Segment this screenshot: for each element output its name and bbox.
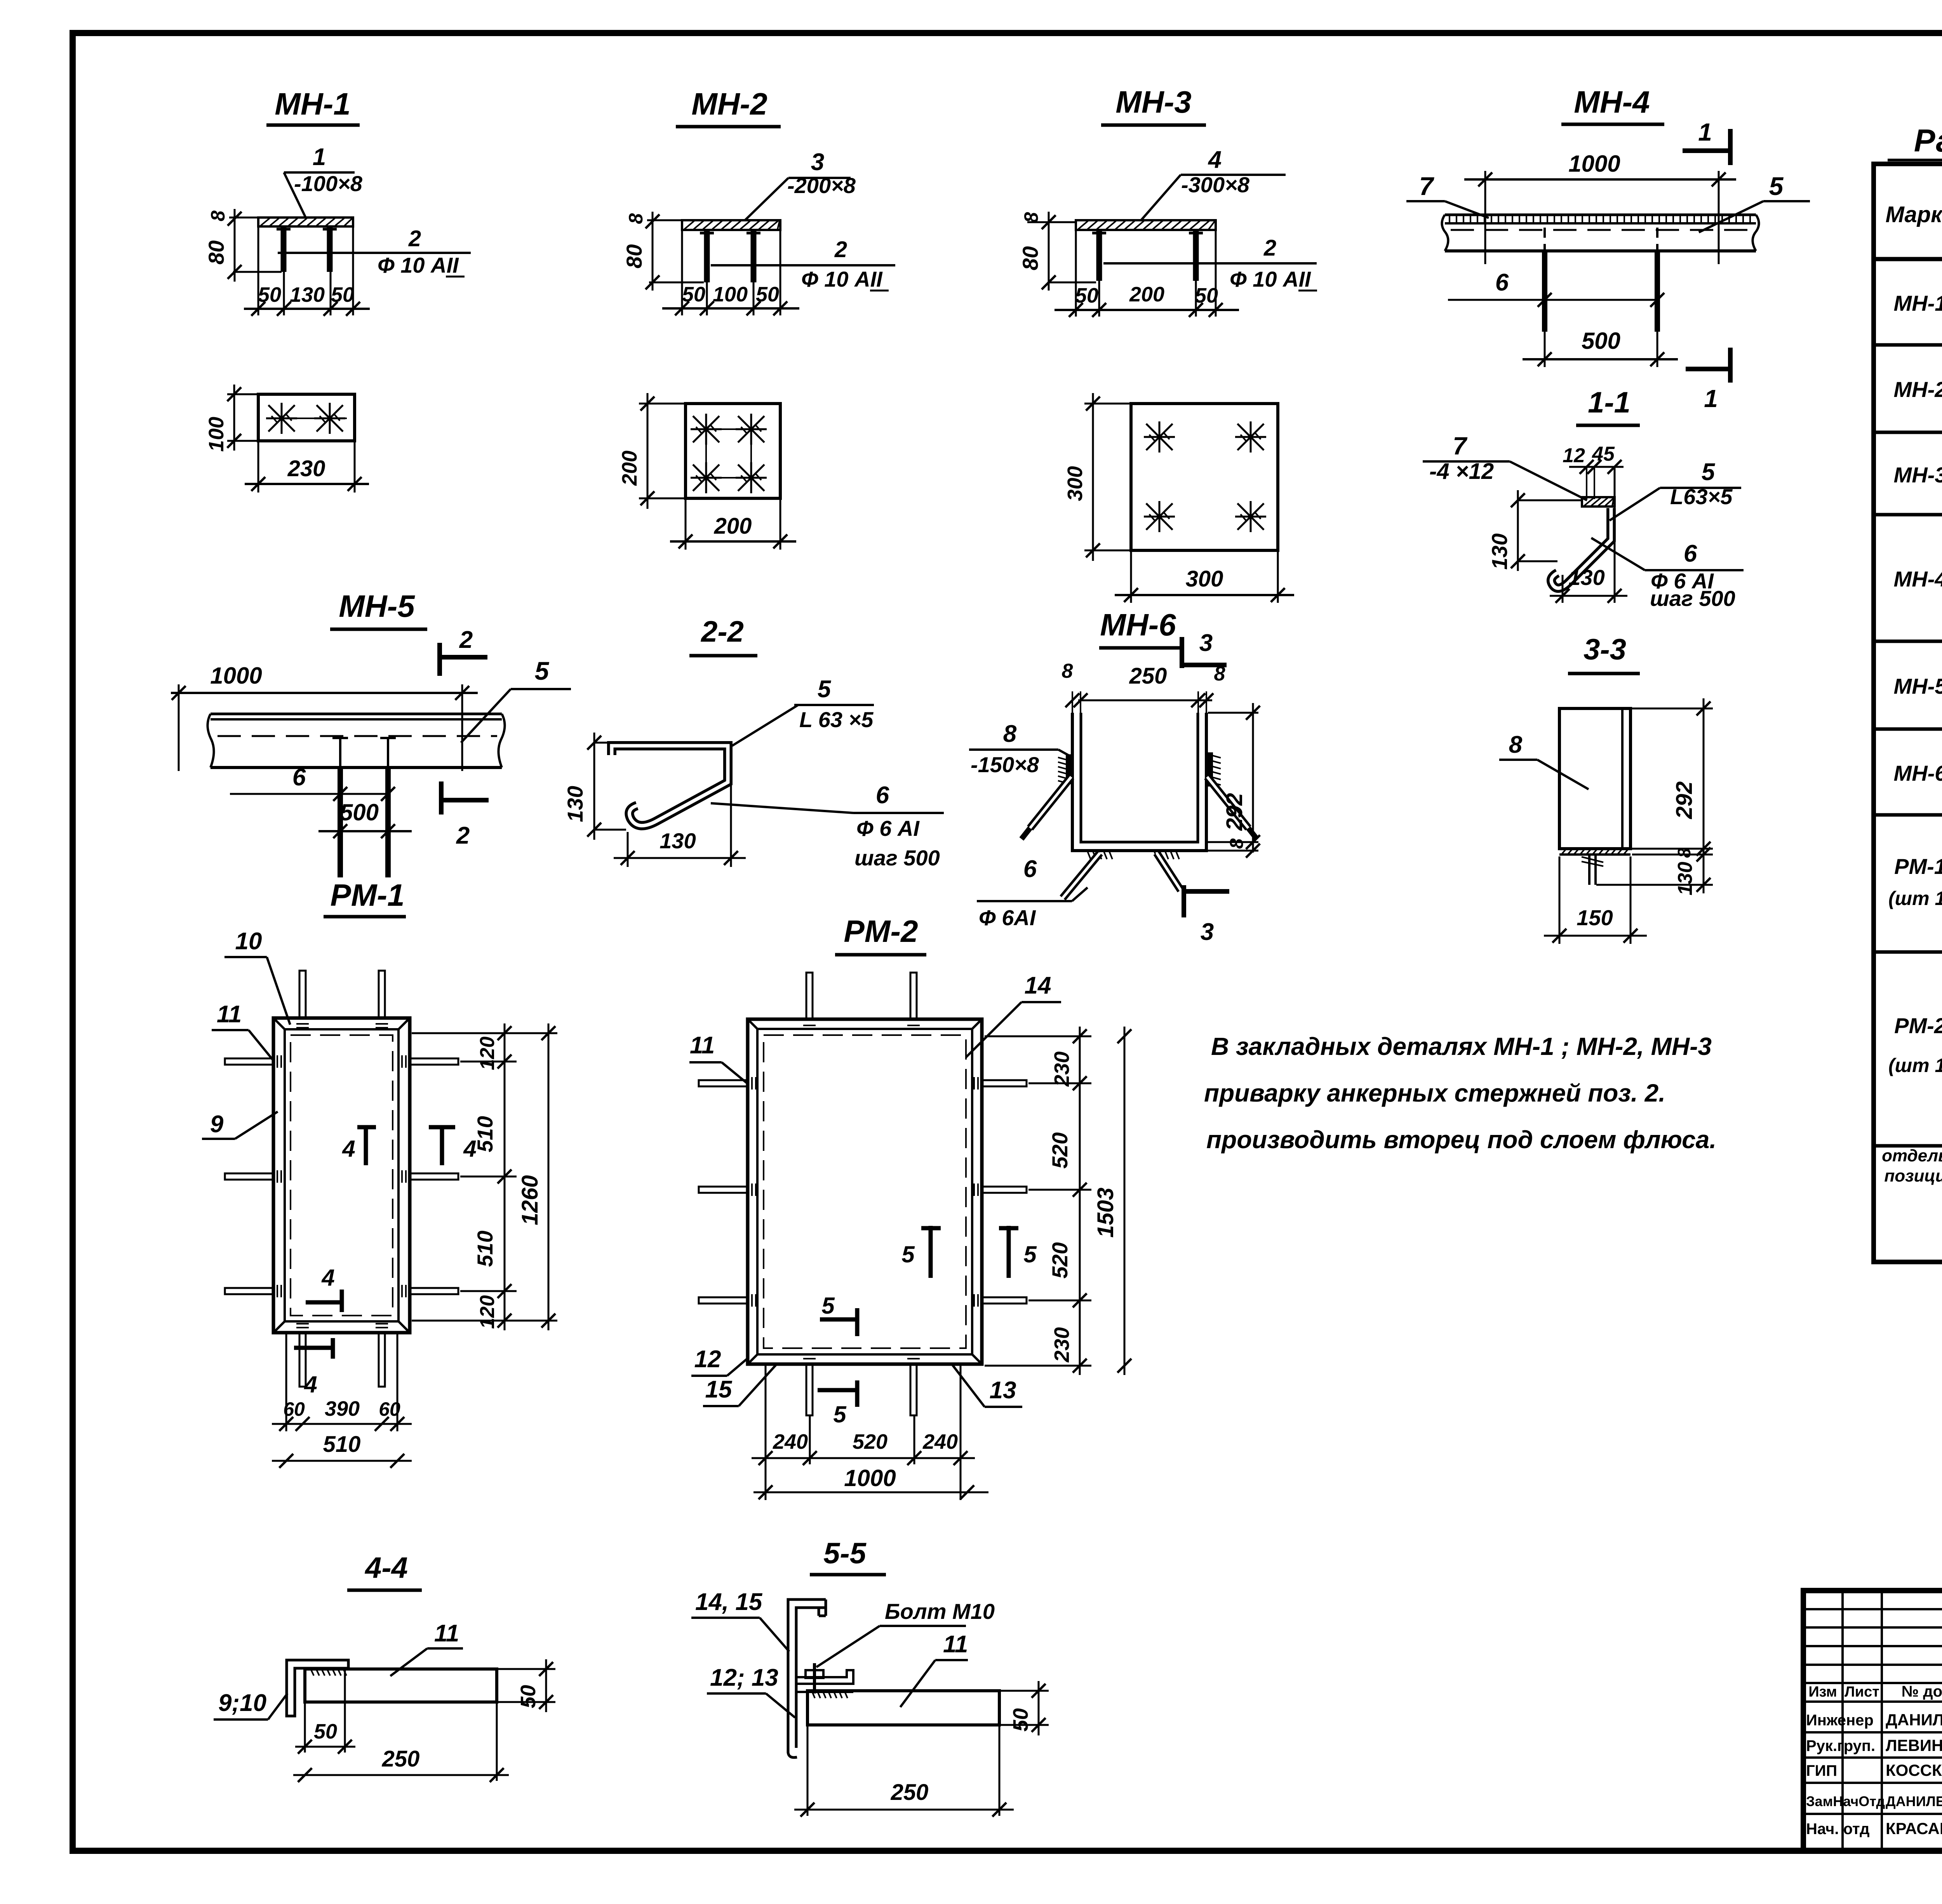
PM-1 anchor pins [225,971,458,1387]
svg-text:11: 11 [434,1620,459,1647]
section 2-2 title [689,615,757,656]
svg-text:Болт М10: Болт М10 [885,1599,995,1624]
svg-text:250: 250 [382,1746,420,1772]
svg-text:292: 292 [1222,793,1247,831]
general note text [1204,1032,1716,1154]
PM-1 bottom dims 60 390 60 [272,1334,412,1431]
svg-text:250: 250 [1129,663,1167,689]
MH-2 leader pos.2 F10AII [711,237,895,291]
svg-text:Изм: Изм [1808,1684,1837,1700]
svg-text:шаг 500: шаг 500 [854,846,940,870]
svg-text:100: 100 [205,417,228,452]
2-2 dim 130 left [563,733,626,840]
svg-text:Ф 6 АI: Ф 6 АI [856,816,920,841]
table header lines [1874,206,1942,259]
PM-1 pin weld ticks [277,1024,406,1328]
svg-text:8: 8 [1020,212,1042,223]
svg-text:45: 45 [1592,443,1615,465]
3-3 dim 130 right [1596,848,1713,895]
svg-text:ЗамНачОтд: ЗамНачОтд [1806,1793,1885,1809]
svg-text:6: 6 [292,764,306,791]
5-5 plate pos.11 [807,1691,999,1725]
svg-text:50: 50 [314,1720,337,1743]
svg-text:80: 80 [204,240,228,265]
2-2 leader pos.5 L63x5 [732,676,874,746]
MH-6 channel pos.8 [1072,713,1206,851]
MH-2 anchor bars pos.2 [700,230,760,282]
PM-2 dim 1000 [753,1465,988,1499]
svg-text:3-3: 3-3 [1584,633,1626,666]
svg-text:1000: 1000 [844,1465,896,1491]
PM-2 leader pos.11 [689,1032,748,1084]
svg-text:200: 200 [618,451,641,486]
svg-text:МН-5: МН-5 [339,589,415,623]
svg-text:500: 500 [340,799,379,825]
MH-6 section mark 3 bottom [1184,885,1229,945]
svg-text:14, 15: 14, 15 [695,1589,763,1615]
detail PM-2 title [835,914,926,955]
MH-3 leader pos.2 F10AII [1103,235,1317,291]
1-1 vertical edge line [1614,467,1616,603]
MH-6 dim 8 250 8 top [1062,660,1225,713]
PM-1 dim 510 bottom [272,1432,412,1468]
MH-2 plan dim 200 left [618,393,684,509]
svg-text:2: 2 [834,237,847,262]
svg-text:2: 2 [456,822,470,849]
MH-5 section mark 2 top [440,627,487,676]
PM-1 frame dashed line [291,1035,393,1316]
svg-text:РМ-2: РМ-2 [1894,1013,1942,1038]
4-4 leader pos.9-10 label [214,1690,287,1720]
detail MH-4 title [1561,85,1664,124]
PM-2 leader pos.15 [703,1365,776,1406]
MH-5 weld studs inside [332,738,396,768]
svg-text:250: 250 [891,1780,929,1805]
MH-4 leader pos.5 [1699,172,1810,232]
svg-text:-100×8: -100×8 [294,171,363,196]
svg-text:4: 4 [304,1371,317,1398]
svg-text:МН-2: МН-2 [691,87,767,121]
svg-text:(шт 1): (шт 1) [1888,888,1942,909]
MH-2 plate section pos.3 [682,220,780,230]
MH-1 leader pos.2 F10AII [278,226,471,277]
svg-text:150: 150 [1577,905,1613,930]
section 3-3 title [1568,633,1640,674]
svg-text:Марка: Марка [1885,202,1942,227]
PM-1 leader pos.9 [202,1111,278,1139]
5-5 dim 250 [794,1726,1014,1817]
svg-text:9: 9 [210,1111,224,1138]
svg-text:80: 80 [1018,246,1042,270]
5-5 weld hatch on plate [812,1691,847,1698]
svg-text:L63×5: L63×5 [1670,484,1733,509]
svg-text:8: 8 [207,211,229,221]
svg-text:300: 300 [1186,566,1223,592]
svg-text:КРАСАВИН: КРАСАВИН [1886,1819,1942,1838]
PM-2 section marks 5 [818,1226,1037,1427]
table header texts [1885,174,1942,254]
5-5 dim 50 right [1001,1681,1049,1735]
MH-2 plan view plate [686,404,780,498]
svg-text:510: 510 [473,1230,497,1267]
svg-text:ГИП: ГИП [1806,1762,1837,1779]
svg-text:4: 4 [1208,146,1222,173]
svg-text:8: 8 [1674,848,1694,858]
svg-text:В закладных деталях МН-1 ; МН: В закладных деталях МН-1 ; МН-2, МН-3 [1211,1032,1712,1060]
title block revision header [1808,1683,1942,1700]
svg-text:200: 200 [714,513,752,539]
svg-text:8: 8 [1062,660,1073,682]
PM-1 right dim chain 120 510 510 120 [412,1023,517,1330]
svg-text:2: 2 [408,226,421,251]
svg-text:230: 230 [287,456,325,481]
MH-5 section mark 2 bottom [441,781,489,849]
MH-1 plan dim 100 [205,385,257,452]
svg-text:1: 1 [1704,385,1718,412]
svg-text:2: 2 [459,627,473,653]
PM-2 right dim chain 230 520 520 230 [985,1027,1091,1375]
svg-text:130: 130 [290,283,325,306]
MH-5 dim 500 [318,799,412,838]
MH-4 hidden anchor rods dashes [1545,228,1657,251]
MH-1 plate section pos.1 [258,218,353,226]
MH-4 leader pos.6 [1448,269,1664,307]
table marka labels [1882,291,1942,1185]
2-2 angle and hook rod [612,746,728,826]
svg-text:6: 6 [876,782,889,809]
5-5 leader pos.14-15 [691,1589,789,1652]
MH-3 dim 8 and 80 left [1018,212,1096,291]
PM-2 anchor pins [699,973,1027,1415]
MH-1 plan dim 230 [245,442,369,493]
PM-2 leader pos.13 [952,1365,1022,1407]
svg-text:шаг 500: шаг 500 [1650,586,1735,611]
detail MH-1 title [266,87,360,125]
MH-5 dim 1000 [171,663,478,771]
svg-text:МН-6: МН-6 [1100,607,1176,642]
MH-1 anchor bars pos.2 [277,226,337,272]
svg-text:4-4: 4-4 [364,1551,408,1584]
table row lines [1874,303,1942,1224]
svg-text:50: 50 [756,283,779,306]
svg-text:Ф 10 АII: Ф 10 АII [1230,267,1311,291]
svg-text:РМ-1: РМ-1 [1894,854,1942,879]
svg-text:12; 13: 12; 13 [710,1664,778,1691]
svg-text:МН-1: МН-1 [275,87,351,121]
MH-2 plan weld marks [691,414,767,493]
svg-text:5: 5 [901,1241,915,1267]
svg-text:ЛЕВИНА: ЛЕВИНА [1886,1736,1942,1754]
2-2 dim 130 bottom [614,785,746,867]
4-4 weld hatch on plate [311,1669,346,1676]
detail PM-1 title [324,878,406,917]
MH-6 leader pos.8 -150x8 [969,721,1072,777]
svg-text:230: 230 [1050,1051,1074,1087]
3-3 dim 150 bottom [1544,856,1647,944]
svg-text:позиции: позиции [1884,1166,1942,1185]
MH-4 dim 500 [1523,328,1678,367]
MH-4 leader pos.7 [1406,172,1489,218]
PM-2 frame dashed line [764,1035,966,1348]
PM-2 leader pos.14 [966,972,1061,1057]
MH-6 anchor rods pos.6 lower [1063,853,1181,898]
svg-text:4: 4 [321,1265,334,1291]
svg-text:-300×8: -300×8 [1181,172,1250,197]
svg-text:МН-6: МН-6 [1894,761,1942,785]
MH-6 anchor rods pos.6 upper [1021,777,1257,839]
svg-text:3: 3 [1199,630,1213,656]
svg-text:12: 12 [1563,444,1585,467]
svg-text:120: 120 [476,1295,499,1329]
svg-text:1-1: 1-1 [1588,386,1631,419]
detail MH-6 title [1099,607,1181,648]
svg-text:130: 130 [563,786,587,822]
svg-text:520: 520 [1048,1242,1072,1278]
detail MH-5 title [330,589,427,629]
MH-3 bottom dims 50 200 50 [1055,230,1239,317]
4-4 leader pos.11 [390,1620,463,1676]
svg-text:520: 520 [853,1430,887,1453]
svg-text:3: 3 [811,149,824,176]
3-3 channel web pos.8 [1559,708,1631,849]
svg-text:МН-1: МН-1 [1894,291,1942,315]
svg-text:3: 3 [1201,919,1214,945]
PM-2 corner miters [748,1019,982,1364]
svg-text:130: 130 [1487,533,1512,569]
svg-text:60: 60 [283,1398,305,1420]
PM-2 dim 1503 [1093,1027,1131,1375]
MH-6 side welds [1058,753,1221,786]
svg-text:5: 5 [818,676,832,703]
svg-text:1000: 1000 [210,663,262,689]
svg-text:50: 50 [1075,284,1098,307]
svg-text:Рук.груп.: Рук.груп. [1806,1737,1875,1754]
title block staff rows [1806,1711,1942,1838]
MH-3 plan weld marks [1144,421,1266,532]
MH-5 leader pos.5 [461,656,571,743]
svg-text:6: 6 [1023,856,1037,882]
svg-text:100: 100 [713,283,748,306]
detail MH-2 title [676,87,781,127]
svg-text:300: 300 [1063,466,1087,501]
MH-6 dim 8 right bottom [1208,838,1260,858]
svg-text:Лист: Лист [1845,1684,1879,1700]
MH-5 leader pos.6 [230,764,395,801]
svg-text:5: 5 [1023,1241,1037,1267]
PM-2 frame channel 8 [748,1019,982,1364]
section 5-5 title [810,1537,886,1575]
svg-text:МН-3: МН-3 [1894,463,1942,487]
MH-1 dim 8 and 80 left [204,209,282,282]
svg-text:5: 5 [1702,459,1716,486]
svg-text:МН-4: МН-4 [1574,85,1650,119]
svg-text:510: 510 [473,1116,497,1152]
MH-6 dim 292 right [1208,703,1260,853]
svg-text:10: 10 [235,928,262,955]
1-1 flat bar pos.7 [1582,497,1615,506]
3-3 leader pos.8 [1499,731,1589,789]
svg-text:РМ-2: РМ-2 [844,914,918,949]
svg-text:1260: 1260 [517,1175,543,1225]
table outer border [1874,164,1942,1262]
3-3 weld stud below [1582,855,1603,885]
svg-text:1503: 1503 [1093,1187,1118,1237]
svg-text:Ф 6АI: Ф 6АI [979,905,1036,930]
svg-text:60: 60 [379,1398,400,1420]
svg-text:5: 5 [821,1293,835,1319]
svg-text:50: 50 [1009,1708,1032,1732]
svg-text:приварку анкерных стержней: приварку анкерных стержней поз. 2. [1204,1079,1665,1107]
svg-text:№ докум: № докум [1902,1683,1942,1700]
svg-text:500: 500 [1582,328,1620,354]
title block outer [1803,1591,1942,1851]
table title [1888,123,1942,160]
svg-text:50: 50 [258,283,281,306]
svg-text:отдельн: отдельн [1882,1146,1942,1165]
svg-text:1: 1 [313,144,326,171]
svg-text:510: 510 [323,1432,361,1457]
MH-6 section mark 3 top [1182,630,1227,668]
MH-6 leader pos.6 F6AI [977,856,1088,930]
MH-1 bottom dims 50 130 50 [244,226,370,316]
1-1 leader pos.5 L63x5 [1610,459,1741,520]
MH-4 riffled strip pos.5/7 [1442,215,1759,251]
PM-1 leader pos.11 [212,1001,274,1062]
svg-text:50: 50 [517,1685,540,1708]
svg-text:6: 6 [1684,540,1697,567]
svg-text:11: 11 [217,1001,242,1028]
PM-1 frame angle 63x5 [273,1018,410,1333]
1-1 angle and hook rod pos.5/6 [1551,508,1611,588]
MH-3 anchor bars pos.2 [1092,230,1203,281]
MH-5 anchor rods pos.6 [340,768,388,877]
svg-text:230: 230 [1050,1327,1074,1363]
1-1 dim 130 bottom [1550,565,1627,603]
svg-text:50: 50 [1195,284,1218,307]
svg-text:8: 8 [1214,663,1225,685]
MH-4 section mark 1 top [1683,118,1730,165]
svg-text:8: 8 [625,213,647,224]
section 1-1 title [1576,386,1640,425]
MH-3 plan dim 300 left [1063,393,1130,561]
svg-text:14: 14 [1025,972,1051,999]
MH-2 dim 8 and 80 left [622,212,704,291]
svg-text:Ф 10 АII: Ф 10 АII [801,267,883,291]
PM-2 pin weld ticks [752,1025,978,1359]
4-4 angle pos.9-10 [287,1660,348,1716]
PM-1 dim 1260 [509,1023,557,1330]
detail MH-3 title [1101,85,1206,125]
PM-2 leader pos.12 [691,1346,748,1376]
PM-2 bottom dims 240 520 240 [752,1366,975,1500]
svg-text:-150×8: -150×8 [971,752,1039,777]
svg-text:ДАНИЛДА: ДАНИЛДА [1886,1711,1942,1729]
1-1 dim 130 left [1487,490,1582,571]
svg-text:РМ-1: РМ-1 [330,878,404,912]
5-5 leader bolt M10 [816,1599,995,1667]
5-5 bolt M10 [806,1663,823,1693]
1-1 dims 12 45 top [1563,443,1624,499]
svg-text:Ф 10 АII: Ф 10 АII [378,253,459,277]
2-2 leader pos.6 F6AI [711,782,944,870]
svg-text:390: 390 [325,1397,360,1420]
svg-text:240: 240 [773,1430,808,1453]
svg-text:(шт 1): (шт 1) [1888,1055,1942,1076]
MH-3 plan dim 300 bottom [1115,552,1294,603]
svg-text:L 63 ×5: L 63 ×5 [799,707,874,732]
svg-text:2-2: 2-2 [700,615,744,648]
MH-1 plan weld marks [266,403,345,434]
svg-text:2: 2 [1263,235,1276,261]
svg-text:6: 6 [1495,269,1509,296]
MH-3 plan view plate [1131,404,1278,550]
svg-text:КОССКО: КОССКО [1886,1761,1942,1779]
svg-text:ДАНИЛЕВСКИЙ: ДАНИЛЕВСКИЙ [1886,1793,1942,1809]
4-4 dim 50 left bottom [295,1670,355,1754]
svg-text:8: 8 [1509,731,1523,758]
MH-5 strip pos.5 [207,714,505,768]
5-5 seat angle pos.12-13 [796,1670,853,1692]
svg-text:7: 7 [1419,172,1435,200]
svg-text:-4 ×12: -4 ×12 [1429,459,1494,484]
svg-text:520: 520 [1048,1132,1072,1168]
svg-text:Расход стали на 1 штуку каждой: Расход стали на 1 штуку каждой марки. [1914,123,1942,158]
MH-1 leader pos.1 -100x8 [284,144,363,217]
svg-text:12: 12 [694,1346,721,1373]
svg-text:80: 80 [622,244,646,268]
svg-text:7: 7 [1453,432,1468,460]
svg-text:292: 292 [1672,781,1697,820]
svg-text:50: 50 [682,283,705,306]
MH-2 leader pos.3 -200x8 [745,149,856,221]
svg-text:130: 130 [1674,862,1697,896]
3-3 dim 292 right [1632,698,1713,858]
PM-1 corner miters [273,1018,410,1333]
svg-text:1: 1 [1698,118,1712,146]
1-1 leader pos.6 F6AI [1591,538,1744,611]
MH-3 leader pos.4 -300x8 [1141,146,1286,221]
MH-4 section mark 1 bottom [1686,348,1730,412]
svg-text:8: 8 [1003,721,1017,747]
svg-text:5: 5 [535,656,550,685]
svg-text:5-5: 5-5 [823,1537,867,1570]
4-4 plate pos.11 [305,1669,497,1702]
svg-text:4: 4 [342,1136,355,1162]
MH-3 plate section pos.4 [1076,220,1216,230]
svg-text:МН-2: МН-2 [1894,377,1942,402]
svg-text:9;10: 9;10 [218,1690,266,1716]
svg-text:240: 240 [922,1430,958,1453]
svg-text:МН-5: МН-5 [1894,674,1942,698]
5-5 leader pos.11 [900,1631,968,1707]
MH-1 plan view plate [258,394,355,441]
svg-text:1000: 1000 [1568,151,1620,177]
MH-2 bottom dims 50 100 50 [662,230,799,315]
svg-text:200: 200 [1129,283,1164,306]
svg-text:11: 11 [690,1032,715,1059]
svg-text:130: 130 [1568,565,1604,590]
svg-text:МН-3: МН-3 [1115,85,1192,119]
PM-1 section marks 4 [294,1126,477,1398]
svg-text:-200×8: -200×8 [787,173,856,198]
svg-text:Инженер: Инженер [1806,1712,1874,1729]
5-5 leader pos.12-13 label [707,1664,795,1718]
3-3 bottom plate hatched [1559,849,1631,855]
svg-text:Нач. отд: Нач. отд [1806,1820,1869,1838]
svg-text:5: 5 [1769,172,1784,200]
section 4-4 title [347,1551,422,1590]
PM-1 leader pos.10 [224,928,290,1025]
